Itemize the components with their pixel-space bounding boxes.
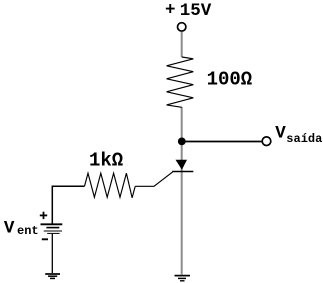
svg-text:100Ω: 100Ω (207, 69, 253, 91)
svg-text:V: V (4, 218, 15, 238)
transistor base bar (172, 171, 193, 173)
resistor 100Ω (167, 57, 194, 107)
wire transistor vertical (181, 107, 183, 275)
wire battery to ground (51, 234, 53, 273)
resistor 1kΩ (85, 173, 136, 198)
transistor arrow (176, 160, 188, 170)
svg-text:V: V (275, 123, 286, 143)
battery Vent minus sign (42, 238, 48, 240)
svg-text:1kΩ: 1kΩ (89, 150, 123, 172)
battery Vent plate 4 (47, 232, 59, 234)
wire collector supply (181, 32, 183, 57)
supply label +15V (165, 1, 212, 22)
battery Vent plate 3 (44, 230, 62, 232)
battery Vent plus sign (40, 212, 47, 219)
input label Vent (4, 218, 39, 238)
terminal +15V (178, 23, 186, 31)
wire base (135, 172, 173, 187)
battery Vent plate 2 (46, 227, 59, 229)
svg-text:+: + (165, 1, 176, 21)
svg-text:ent: ent (17, 224, 39, 238)
svg-text:saída: saída (286, 132, 322, 146)
wire output (184, 141, 262, 143)
ground emitter (175, 276, 191, 281)
svg-text:15V: 15V (180, 1, 212, 21)
wire input left (52, 186, 84, 223)
output label Vsaida (275, 123, 322, 146)
node collector junction (178, 138, 186, 146)
ground left (45, 274, 60, 278)
terminal Vsaida (262, 137, 271, 146)
battery Vent plate 1 (41, 223, 63, 225)
